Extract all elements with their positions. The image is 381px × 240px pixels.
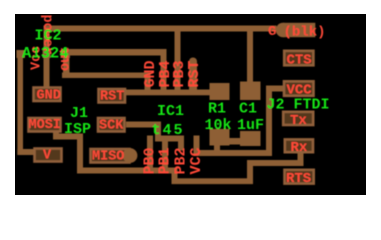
pad: FTDI GND capsule body — [283, 23, 315, 37]
pad: R1 bottom — [210, 129, 230, 146]
wire: VCC pad riser vertical — [266, 86, 272, 157]
wire: VCC column down — [194, 136, 200, 157]
wire: stub up into Rx pad — [298, 152, 304, 166]
svg-text:J2 FTDI: J2 FTDI — [267, 97, 330, 114]
svg-text:VCC: VCC — [287, 83, 313, 99]
wire: MOSI pad stub down — [53, 131, 59, 140]
pad: J1 RST — [99, 89, 126, 103]
board background — [15, 14, 366, 195]
wire: VCC horizontal — [194, 150, 273, 156]
svg-text:G: G — [268, 24, 276, 40]
wire: PB4 column down to IC1 — [161, 49, 167, 95]
svg-text:R1: R1 — [208, 101, 226, 118]
pad: R1 top — [210, 83, 230, 100]
svg-text:MOSI: MOSI — [29, 118, 61, 133]
svg-text:Tx: Tx — [290, 113, 307, 129]
svg-text:RST: RST — [186, 60, 203, 87]
wire: PB2 column stub — [178, 136, 184, 151]
pad: C1 top — [240, 82, 261, 101]
wire: lower horizontal from IC2 to IC1 GND column — [62, 73, 151, 79]
svg-text:ISP: ISP — [64, 121, 91, 138]
wire: IC2 pin3 short column — [63, 50, 70, 78]
svg-text:IC2: IC2 — [35, 28, 62, 45]
wire: jog down right of PB2 label — [172, 168, 178, 184]
wire: PB0 column down — [147, 136, 153, 174]
wire: Rx horizontal — [247, 160, 304, 166]
wire: center vertical between J1 columns — [77, 134, 83, 174]
svg-text:SCK: SCK — [99, 119, 124, 134]
svg-text:A1324: A1324 — [22, 45, 69, 63]
wire: RST bus from J1 RST pad to R1 — [126, 90, 213, 96]
wire: SCK trace horizontal — [126, 122, 161, 128]
svg-text:J1: J1 — [70, 105, 88, 122]
pad: J1 MISO body — [91, 149, 130, 163]
pad: J1 SCK — [98, 118, 125, 132]
pad: J1 MISO round end — [123, 148, 138, 163]
wire: upper rail from IC2 out to PB4 column — [62, 49, 167, 56]
pad: C1 bottom — [240, 131, 261, 146]
wire: PB3 column from top rail down — [175, 31, 181, 95]
wire: far-left vertical from IC2 pin1 down — [17, 52, 23, 155]
svg-text:PB1: PB1 — [157, 147, 174, 174]
svg-text:t45: t45 — [152, 122, 185, 139]
wire: VCC pad entry — [266, 86, 284, 92]
svg-text:1uF: 1uF — [237, 117, 264, 134]
svg-text:10k: 10k — [205, 117, 232, 134]
pad: J2 VCC — [284, 81, 314, 96]
pad: IC1 RST capsule round top — [189, 58, 197, 66]
wire: horizontal under MISO pad — [77, 168, 178, 174]
svg-text:MISO: MISO — [92, 150, 124, 165]
pad: IC2 pin 3 — [61, 50, 71, 58]
svg-text:RST: RST — [100, 90, 124, 105]
wire: PB1 column down — [162, 136, 168, 174]
svg-text:Rx: Rx — [291, 140, 308, 156]
svg-text:CTS: CTS — [287, 52, 312, 68]
wire: IC1 GND column — [145, 73, 151, 96]
wire: elbow into V pad — [17, 149, 34, 155]
svg-text:PB2: PB2 — [173, 147, 190, 174]
svg-text:C1: C1 — [239, 101, 257, 118]
wire: R1 bottom to VCC vertical — [214, 143, 220, 156]
wire: IC2 center pin column down to GND pad — [44, 26, 50, 88]
svg-text:IC1: IC1 — [157, 103, 184, 120]
wire: bottom horizontal to Rx riser — [172, 178, 254, 184]
svg-text:(blk): (blk) — [284, 25, 326, 41]
wire: top GND rail — [44, 26, 277, 32]
wire: band between R1 and C1 bottoms — [229, 138, 241, 145]
pad: J2 RTS — [285, 170, 314, 184]
pad: IC2 pin 1 — [17, 50, 26, 58]
pad: FTDI GND capsule round left — [276, 23, 290, 37]
wire: MOSI arm horizontal — [53, 134, 83, 140]
svg-text:V: V — [43, 149, 52, 164]
svg-text:RTS: RTS — [286, 171, 311, 187]
wire: SCK trace horizontal 2 to PB2 — [155, 136, 184, 142]
pad: J2 CTS — [284, 51, 313, 66]
svg-text:VCC: VCC — [188, 147, 205, 174]
pad: J1 V — [35, 149, 62, 162]
pad: J1 GND — [34, 88, 61, 102]
wire: C1 top column from rail — [247, 31, 253, 83]
pad: J2 Tx — [283, 112, 313, 125]
svg-text:GND: GND — [37, 89, 61, 104]
pad: J1 MOSI — [29, 118, 61, 132]
pad: J2 Rx — [285, 139, 313, 152]
pad: IC2 pin 2 — [43, 50, 51, 58]
wire: SCK trace vertical jog — [155, 122, 161, 142]
pad: IC1 RST capsule body — [189, 62, 197, 96]
wire: Rx riser vertical — [247, 160, 253, 184]
